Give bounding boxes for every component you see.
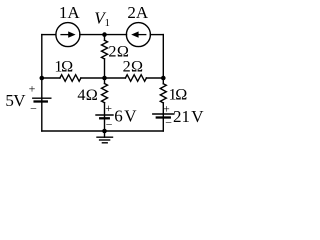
- wire middle rail segment A: [42, 77, 60, 79]
- wire top rail middle segment: [80, 34, 127, 36]
- node middle rail dot: [102, 76, 107, 81]
- resistor R 1ohm horizontal: [60, 75, 81, 82]
- node left rail dot: [40, 76, 45, 81]
- battery V 21V short plate: [157, 116, 170, 118]
- wire rail to 1ohm right: [162, 78, 164, 84]
- svg-text:+: +: [105, 101, 112, 115]
- svg-text:+: +: [29, 81, 36, 95]
- wire bottom rail: [42, 130, 164, 132]
- ground bar 2: [100, 139, 110, 141]
- battery V 5V short plate: [35, 100, 47, 102]
- wire top rail right segment: [150, 34, 163, 36]
- arrow of 2A source pointing left: [138, 34, 146, 35]
- resistor R 2ohm horizontal: [125, 75, 146, 82]
- svg-text:−: −: [106, 117, 113, 131]
- arrow of 1A source pointing right: [60, 34, 68, 35]
- svg-text:2Ω: 2Ω: [123, 58, 143, 76]
- ground bar 1: [97, 136, 113, 138]
- svg-text:V1: V1: [94, 8, 110, 28]
- svg-text:6V: 6V: [114, 107, 137, 126]
- svg-text:−: −: [165, 116, 172, 130]
- ground bar 3: [102, 142, 107, 144]
- wire 4ohm to bottom rail through 6V battery: [104, 103, 106, 131]
- wire rail to 4ohm: [104, 78, 106, 84]
- svg-text:21V: 21V: [173, 107, 204, 126]
- svg-text:2A: 2A: [127, 3, 149, 22]
- resistor R 4ohm vertical: [102, 84, 108, 103]
- resistor R 2ohm vertical: [102, 40, 108, 59]
- battery V 6V long plate: [96, 114, 113, 116]
- current source I2 2A circle: [126, 23, 150, 47]
- svg-text:4Ω: 4Ω: [77, 86, 97, 104]
- battery V 21V long plate: [153, 113, 174, 115]
- wire left vertical: [41, 35, 43, 131]
- battery V 6V short plate: [100, 117, 109, 119]
- wire top rail left segment: [42, 34, 56, 36]
- wire 2ohm vertical to rail: [104, 59, 106, 78]
- wire right vertical from 2A to middle rail: [162, 35, 164, 78]
- svg-text:1Ω: 1Ω: [54, 57, 73, 75]
- svg-text:1A: 1A: [59, 3, 81, 22]
- node bottom rail dot: [102, 129, 107, 134]
- resistor R 1ohm vertical: [160, 84, 166, 103]
- current source I1 1A circle: [56, 23, 80, 47]
- svg-text:1Ω: 1Ω: [169, 86, 188, 104]
- svg-text:+: +: [163, 101, 170, 115]
- ground stub: [104, 131, 106, 137]
- battery V 5V long plate: [33, 97, 51, 99]
- wire middle rail segment B: [81, 77, 126, 79]
- svg-text:5V: 5V: [5, 91, 26, 110]
- wire 1ohm to bottom rail through 21V battery: [162, 103, 164, 131]
- node V1 dot: [102, 32, 107, 37]
- wire V1 stub: [104, 35, 106, 41]
- svg-text:−: −: [30, 101, 37, 115]
- wire middle rail segment C: [146, 77, 163, 79]
- node right rail dot: [161, 76, 166, 81]
